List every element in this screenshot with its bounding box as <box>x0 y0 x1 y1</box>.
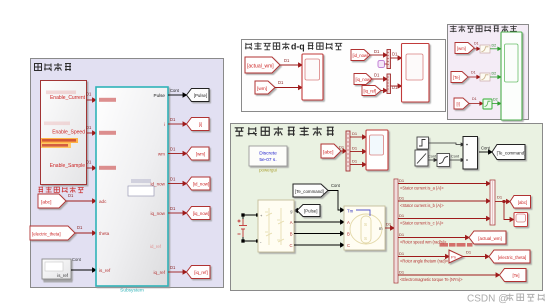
svg-text:D2: D2 <box>492 72 497 76</box>
svg-text:A: A <box>347 220 350 225</box>
area box 中断模块 <box>31 59 224 288</box>
svg-text:5e-07 s.: 5e-07 s. <box>259 157 276 163</box>
svg-text:d-q: d-q <box>291 42 305 52</box>
svg-text:S: S <box>364 236 367 241</box>
from block [wm] (waveform) <box>455 43 474 54</box>
svg-text:D1: D1 <box>474 42 479 46</box>
svg-text:D1: D1 <box>170 177 176 182</box>
svg-text:[id_now]: [id_now] <box>193 182 209 187</box>
mux (Te command) <box>463 137 478 170</box>
svg-text:[abc]: [abc] <box>323 150 333 156</box>
svg-text:[Te]: [Te] <box>453 75 460 80</box>
svg-text:B: B <box>347 232 350 237</box>
svg-text:D1: D1 <box>170 147 176 152</box>
svg-text:Cont: Cont <box>481 146 491 151</box>
mux (abc currents out) <box>490 180 495 225</box>
signal is_b <box>398 199 490 203</box>
svg-text:D2: D2 <box>493 98 498 102</box>
svg-text:D1: D1 <box>374 73 380 78</box>
svg-text:<Stator current is_b (A)>: <Stator current is_b (A)> <box>400 203 444 208</box>
signal is_a <box>398 182 490 186</box>
svg-text:D1: D1 <box>278 80 284 85</box>
signal electromagnetic torque Te <box>398 273 500 277</box>
wire [Pulse] -> inverter g <box>294 209 298 213</box>
title 逆变器和电机模块 <box>235 127 334 136</box>
from block [abc] <box>38 194 66 208</box>
wire + rate transition 2 <box>468 75 480 78</box>
svg-text:D1: D1 <box>399 232 405 237</box>
svg-text:CSDN @: CSDN @ <box>467 294 508 305</box>
svg-text:C: C <box>347 243 350 248</box>
svg-text:Enable_Speed: Enable_Speed <box>52 130 85 136</box>
wire [id_now] -> mux <box>370 53 387 57</box>
wire saturation -> mux <box>450 159 465 162</box>
wire [electric_theta] -> theta <box>75 231 96 235</box>
svg-text:adc: adc <box>99 199 107 204</box>
demux out wires -> scope <box>350 135 366 167</box>
small purple block (dashboard) <box>378 61 385 68</box>
from block [iq_now] <box>354 74 372 85</box>
goto block [Te] <box>500 269 527 282</box>
svg-text:D1: D1 <box>466 250 472 255</box>
mux (d current) <box>387 50 391 69</box>
goto block [abc] <box>510 196 531 209</box>
wire step -> mux <box>429 143 465 146</box>
annotation orange highlighted note <box>41 138 78 143</box>
wire Te_command -> motor Tm <box>328 191 344 213</box>
svg-text:[wm]: [wm] <box>457 46 466 51</box>
mux (q current) <box>387 74 391 94</box>
svg-text:[iq_ref]: [iq_ref] <box>194 270 207 275</box>
svg-text:D1: D1 <box>86 92 92 97</box>
wire Pulse -> [Pulse] (Cont, black) <box>168 93 187 97</box>
goto block [electric_theta] <box>489 250 530 263</box>
svg-text:[electric_theta]: [electric_theta] <box>498 255 527 260</box>
subsystem big block (cyan) <box>96 87 168 286</box>
svg-text:Cont: Cont <box>428 155 437 159</box>
area box 转速滤波及d-q电流展示 <box>242 40 446 112</box>
svg-text:D1: D1 <box>339 145 345 150</box>
scope block (speed scope) <box>302 54 323 100</box>
svg-text:[iq_now]: [iq_now] <box>193 211 209 216</box>
svg-text:D1: D1 <box>68 193 74 198</box>
svg-text:D1: D1 <box>352 159 358 164</box>
goto block [id_now] <box>187 177 211 190</box>
from block [Te] (waveform) <box>451 72 468 83</box>
wire Enable_Current -> subsystem (D1) <box>87 98 96 102</box>
svg-text:D1: D1 <box>284 58 290 63</box>
from block [wm] <box>255 81 275 94</box>
block rate transition 1 <box>480 45 490 53</box>
svg-text:D2: D2 <box>492 44 497 48</box>
block rate transition 2 <box>480 73 490 81</box>
from block [Te_command] (torque) <box>293 184 328 197</box>
svg-text:[electric_theta]: [electric_theta] <box>32 232 61 237</box>
svg-text:powergui: powergui <box>259 168 277 173</box>
demux (3 currents) <box>346 131 350 171</box>
title 中断模块 <box>35 63 72 71</box>
wire [wm] -> scope <box>275 86 302 90</box>
signal rotor angle thetam <box>398 255 449 259</box>
svg-text:[Te_command]: [Te_command] <box>497 150 526 155</box>
wire purple -> mux <box>385 63 388 65</box>
inverter block (IGBT bridge) <box>258 200 294 252</box>
wire [actual_wm] -> scope <box>280 63 302 67</box>
svg-text:g: g <box>290 209 292 214</box>
wire [abc] -> demux <box>341 149 346 153</box>
svg-text:D1: D1 <box>352 131 358 136</box>
svg-text:D1: D1 <box>399 178 405 183</box>
svg-text:iq_ref: iq_ref <box>154 270 166 275</box>
svg-text:<Stator current is_a (A)>: <Stator current is_a (A)> <box>400 186 444 191</box>
svg-text:Cont: Cont <box>331 183 341 188</box>
svg-text:Enable_Current: Enable_Current <box>50 95 86 101</box>
svg-text:Cont: Cont <box>72 257 82 262</box>
svg-text:B: B <box>290 232 293 237</box>
signal is_c <box>398 217 490 221</box>
powergui block Discrete 5e-07 s. <box>249 146 287 166</box>
scope block (abc currents) <box>366 130 388 170</box>
scope block (main waveforms, green) <box>501 32 522 120</box>
svg-text:D1: D1 <box>392 52 398 57</box>
svg-text:<Stator current is_c (A)>: <Stator current is_c (A)> <box>400 221 444 226</box>
svg-text:[actual_wm]: [actual_wm] <box>247 64 274 70</box>
step block <box>417 137 429 149</box>
svg-text:D1: D1 <box>170 265 176 270</box>
wire mux2 -> scope2 <box>391 84 402 88</box>
svg-text:[id_now]: [id_now] <box>353 53 369 58</box>
wire mux -> scope2 <box>391 56 402 60</box>
svg-text:D1: D1 <box>399 196 405 201</box>
wire is_ref -> subsystem (Cont, black) <box>71 268 96 272</box>
svg-text:C: C <box>289 243 292 248</box>
svg-text:[abc]: [abc] <box>41 200 51 206</box>
annotation red tiny 转矩输入（电机输出） <box>440 243 473 247</box>
wire wm -> [wm] (D1) <box>168 152 187 156</box>
svg-text:D1: D1 <box>77 225 83 230</box>
svg-text:D1: D1 <box>86 160 92 165</box>
svg-text:<Electromagnetic torque Te (N*: <Electromagnetic torque Te (N*m)> <box>400 277 463 282</box>
motor block (PMSM) <box>344 206 385 250</box>
wire Enable_Speed -> subsystem (D1) <box>87 131 96 135</box>
from block [actual_wm] <box>245 57 280 73</box>
wire ramp -> saturation <box>428 159 437 162</box>
annotation small white box inside subsystem <box>128 186 154 196</box>
ramp block <box>415 150 428 166</box>
goto block [wm] <box>187 147 210 160</box>
goto block [Pulse] <box>187 89 210 102</box>
block: interrupt source (red subsystem) <box>41 81 87 185</box>
svg-text:D1: D1 <box>399 270 405 275</box>
wire Enable_Sample -> subsystem (D1) <box>87 166 96 170</box>
svg-text:Cont: Cont <box>170 88 180 93</box>
wire i -> [i] (D1) <box>168 122 187 126</box>
wire mux -> goto [Te_command] <box>479 150 492 154</box>
goto block [iq_ref] <box>187 266 211 279</box>
wire iq_now -> [iq_now] (D1) <box>168 211 187 215</box>
DC voltage source <box>238 219 248 237</box>
from block [Pulse] (gates, flipped) <box>297 205 320 217</box>
svg-text:i: i <box>164 122 165 127</box>
wire + rate transition 3 (green) <box>469 102 483 105</box>
scope block (dq currents) <box>402 44 430 103</box>
from block [id_now] <box>351 50 370 61</box>
wires DC source -> inverter <box>242 214 259 242</box>
signal rotor speed wm <box>398 236 469 240</box>
svg-text:[i]: [i] <box>199 122 202 127</box>
svg-text:Pulse: Pulse <box>154 93 166 98</box>
port label 转速中断 <box>99 131 116 135</box>
svg-text:[iq_now]: [iq_now] <box>356 77 372 82</box>
from block [i] (waveform) <box>454 98 469 109</box>
svg-text:D1: D1 <box>471 71 476 75</box>
svg-text:D1: D1 <box>497 195 503 200</box>
annotation faint pink inside interrupt source <box>46 91 76 95</box>
bus selector <box>394 179 398 283</box>
svg-text:D1: D1 <box>86 125 92 130</box>
wire iq_ref -> [iq_ref] (D1) <box>168 270 187 274</box>
svg-text:[Pulse]: [Pulse] <box>304 209 317 214</box>
svg-text:D1: D1 <box>399 251 405 256</box>
svg-text:[wm]: [wm] <box>196 152 205 157</box>
svg-text:<Rotor angle thetam (rad)>: <Rotor angle thetam (rad)> <box>400 259 449 264</box>
svg-text:D1: D1 <box>170 206 176 211</box>
svg-text:wm: wm <box>158 152 165 157</box>
svg-text:Enable_Sample: Enable_Sample <box>50 163 86 169</box>
svg-text:is_ref: is_ref <box>99 268 111 273</box>
goto block [iq_now] <box>187 207 211 220</box>
wire [abc] -> adc <box>66 199 96 203</box>
area box 主要波形展示模块 <box>448 25 529 120</box>
svg-text:[Te]: [Te] <box>512 273 519 278</box>
wires iq_now / iq_ref -> mux2 <box>372 77 387 93</box>
svg-text:[Te_command]: [Te_command] <box>295 189 324 194</box>
svg-text:S: S <box>364 222 367 227</box>
svg-text:[actual_wm]: [actual_wm] <box>478 236 501 241</box>
watermark CSDN @烦恼旧林 <box>467 293 545 304</box>
svg-text:Subsystem: Subsystem <box>120 288 144 294</box>
from block [abc] (currents) <box>321 144 341 158</box>
svg-text:iq_now: iq_now <box>150 211 165 216</box>
svg-text:D1: D1 <box>386 222 392 227</box>
block rate transition 3 <box>483 99 492 109</box>
svg-text:Cont: Cont <box>451 155 460 159</box>
svg-text:[Pulse]: [Pulse] <box>194 93 207 98</box>
svg-text:D1: D1 <box>352 146 358 151</box>
svg-text:[iq_ref]: [iq_ref] <box>364 89 377 94</box>
svg-text:is_ref: is_ref <box>57 273 69 278</box>
wire gain -> [electric_theta] <box>463 255 489 259</box>
svg-text:D1: D1 <box>374 49 380 54</box>
title 转速滤波及d-q电流展示 <box>245 42 290 49</box>
svg-text:Tm: Tm <box>347 209 354 214</box>
svg-text:D1: D1 <box>399 213 405 218</box>
svg-text:[i]: [i] <box>457 102 460 107</box>
wire motor m -> bus selector <box>385 226 394 230</box>
from block [iq_ref] <box>362 86 381 96</box>
label 实时中断模块 (red, below block) <box>39 187 84 193</box>
svg-text:A: A <box>290 220 293 225</box>
title 主要波形展示模块 <box>450 25 517 32</box>
wire id_now -> [id_now] (D1) <box>168 182 187 186</box>
port label 采样中断 <box>99 166 116 170</box>
source block is_ref (signal builder) <box>42 259 71 279</box>
port label 电流中断 <box>99 98 116 102</box>
wire mux -> [abc] goto + scope <box>495 200 514 222</box>
from block [electric_theta] <box>30 226 75 240</box>
wire + rate transition 1 <box>474 47 480 50</box>
scope small (currents) <box>514 213 528 227</box>
svg-text:[wm]: [wm] <box>257 86 267 92</box>
saturation block <box>437 154 450 167</box>
goto block [actual_wm] <box>469 231 506 244</box>
goto block [i] <box>187 118 210 131</box>
svg-text:theta: theta <box>99 231 110 236</box>
svg-text:id_ref: id_ref <box>150 244 162 249</box>
svg-text:[abc]: [abc] <box>518 200 528 205</box>
svg-text:D1: D1 <box>170 117 176 122</box>
svg-text:id_now: id_now <box>150 182 165 187</box>
svg-text:Pn: Pn <box>451 255 456 259</box>
gain block Pn <box>449 250 463 263</box>
goto block [Te_command] <box>492 145 525 160</box>
wires inverter ABC -> motor ABC <box>294 220 344 247</box>
svg-text:m: m <box>379 226 383 231</box>
svg-text:Discrete: Discrete <box>259 151 277 157</box>
area box 逆变器和电机模块 <box>231 124 543 291</box>
svg-text:D1: D1 <box>472 97 477 101</box>
